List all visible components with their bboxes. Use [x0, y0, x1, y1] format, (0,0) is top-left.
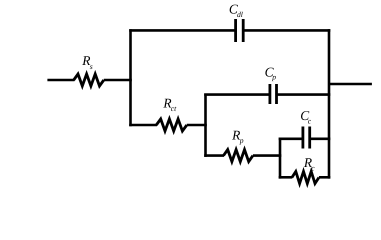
wire: right terminal lead out of node B	[329, 83, 372, 86]
resistor Rct (zigzag)	[156, 119, 187, 131]
capacitor Cdl plates	[236, 19, 244, 42]
node A vertical bus (left junction)	[129, 29, 132, 126]
wire: Rct rail left segment (node A to Rct)	[129, 124, 157, 127]
wire: Rp rail right segment (Rp to node D)	[253, 154, 281, 157]
wire: Cc rail left segment (node D to Cc)	[279, 138, 304, 141]
wire: Rct rail right segment (Rct to node C)	[187, 124, 207, 127]
label Cc	[300, 108, 312, 126]
label Cdl	[229, 1, 243, 18]
capacitor Cc plates	[303, 127, 310, 149]
svg-text:c: c	[311, 163, 315, 172]
node D vertical bus (Cc/Rc parallel branch left side)	[279, 138, 282, 179]
wire: Cc rail right segment (Cc to node B)	[310, 138, 331, 141]
node B vertical bus (right junction)	[328, 29, 331, 179]
label Rp	[231, 127, 244, 145]
wire: Rs to node A	[104, 79, 132, 82]
svg-text:p: p	[239, 136, 244, 145]
label Rs	[81, 53, 93, 71]
wire: Cp rail right segment (Cp to node B)	[277, 93, 331, 96]
resistor Rc (zigzag)	[292, 172, 319, 184]
svg-text:c: c	[308, 117, 312, 126]
resistor Rp (zigzag)	[224, 150, 253, 162]
svg-text:dl: dl	[237, 10, 243, 19]
wire: left terminal lead into node A	[47, 79, 74, 82]
node C vertical bus (middle junction)	[204, 94, 207, 157]
capacitor Cp plates	[270, 84, 277, 104]
wire: top rail left segment (node A to Cdl)	[129, 29, 236, 32]
wire: Rp rail left segment (node C to Rp)	[204, 154, 224, 157]
svg-text:s: s	[90, 62, 93, 71]
svg-text:p: p	[271, 73, 276, 82]
wire: Cp rail left segment (node C to Cp)	[204, 93, 270, 96]
resistor Rs (zigzag)	[74, 74, 104, 86]
wire: top rail right segment (Cdl to node B)	[243, 29, 330, 32]
label Cp	[265, 64, 277, 81]
wire: Rc rail left segment (node D to Rc)	[279, 176, 293, 179]
svg-text:ct: ct	[171, 104, 177, 113]
label Rc	[303, 155, 315, 172]
label Rct	[162, 96, 177, 113]
wire: Rc rail right segment (Rc to node B)	[319, 176, 330, 179]
